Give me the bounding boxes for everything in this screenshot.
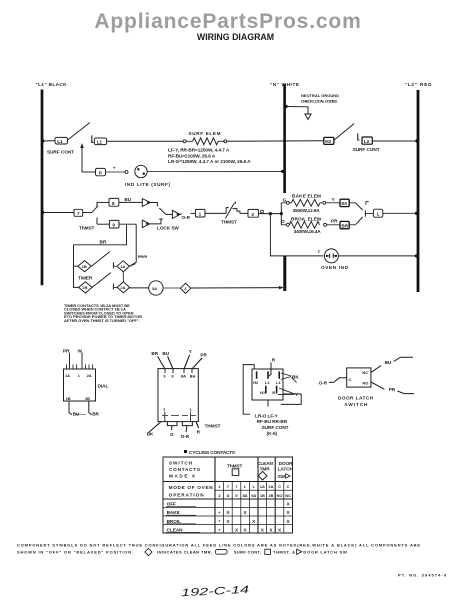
svg-text:CLEAN: CLEAN bbox=[167, 527, 184, 532]
svg-text:PR: PR bbox=[200, 353, 207, 358]
wire to switch 7 bbox=[44, 212, 74, 214]
svg-text:RF-BU RR-BR: RF-BU RR-BR bbox=[257, 419, 288, 424]
svg-text:SHOWN IN "OFF" OR "RELAXED" PO: SHOWN IN "OFF" OR "RELAXED" POSITION. bbox=[17, 549, 133, 554]
svg-text:O-R: O-R bbox=[181, 434, 190, 439]
svg-text:3400W,16.4A: 3400W,16.4A bbox=[294, 229, 322, 234]
svg-text:O-R: O-R bbox=[182, 215, 191, 220]
svg-text:NC: NC bbox=[285, 493, 291, 498]
part number handwriting bbox=[181, 584, 250, 600]
svg-text:AppliancePartsPros.com: AppliancePartsPros.com bbox=[94, 10, 361, 33]
connector triangle T2 lock sw bbox=[142, 219, 179, 231]
bake/broil lattice left rail bbox=[281, 197, 287, 224]
svg-text:THMST, &: THMST, & bbox=[273, 549, 295, 554]
svg-text:2A: 2A bbox=[268, 484, 273, 489]
svg-text:8A: 8A bbox=[243, 493, 248, 498]
svg-text:BK: BK bbox=[292, 374, 299, 379]
svg-text:ThMST: ThMST bbox=[227, 463, 243, 468]
wire arrow up from P bbox=[80, 143, 95, 172]
svg-text:L: L bbox=[377, 212, 380, 217]
svg-text:DOOR LATCH SW.: DOOR LATCH SW. bbox=[303, 549, 348, 554]
svg-text:TIMER: TIMER bbox=[78, 275, 93, 280]
wire to resistor bbox=[107, 140, 183, 142]
svg-text:L1: L1 bbox=[97, 140, 103, 145]
bus N WHITE bbox=[270, 82, 299, 193]
bus L1 BLACK bbox=[36, 82, 68, 285]
svg-text:TMR: TMR bbox=[260, 467, 271, 472]
svg-text:1B: 1B bbox=[82, 264, 87, 269]
node T bbox=[269, 212, 272, 215]
selector switch 7-8/9 bbox=[79, 202, 109, 230]
svg-text:8A: 8A bbox=[181, 374, 186, 379]
svg-text:LATCH: LATCH bbox=[278, 467, 294, 472]
svg-text:IND LITE (SURF): IND LITE (SURF) bbox=[125, 182, 170, 187]
ground symbol bbox=[284, 93, 339, 119]
svg-text:CHECK LOCAL CODES: CHECK LOCAL CODES bbox=[301, 99, 337, 104]
terminal 2 bbox=[248, 209, 280, 217]
selector blades to L bbox=[349, 202, 373, 225]
svg-text:LF-Y, RR-BR=1250W, 4.4.7 A: LF-Y, RR-BR=1250W, 4.4.7 A bbox=[168, 148, 230, 153]
svg-text:SURF CONT: SURF CONT bbox=[47, 150, 74, 155]
svg-text:LOCK SW: LOCK SW bbox=[157, 226, 179, 231]
svg-text:O: O bbox=[281, 219, 285, 224]
svg-text:BROIL ELEM: BROIL ELEM bbox=[291, 216, 321, 221]
svg-text:*: * bbox=[218, 519, 220, 524]
svg-text:CLEAN: CLEAN bbox=[257, 461, 274, 466]
svg-text:BK: BK bbox=[147, 431, 154, 436]
terminal 1 bbox=[195, 209, 205, 217]
node: L1 surf cont junction bbox=[41, 139, 44, 142]
DIAL component bbox=[63, 348, 109, 416]
cycling contacts note bbox=[184, 450, 235, 455]
svg-text:2A: 2A bbox=[120, 285, 125, 290]
svg-text:PR: PR bbox=[63, 348, 70, 353]
svg-text:2B: 2B bbox=[85, 396, 90, 401]
bus L2 RED bbox=[405, 82, 433, 292]
svg-text:BU: BU bbox=[124, 197, 131, 202]
connector triangle T1 bbox=[142, 199, 157, 207]
node lattice left bbox=[280, 212, 283, 215]
wire 2A to timer motor bbox=[130, 287, 149, 289]
svg-text:COMPONENT SYMBOLS DO NOT REFLE: COMPONENT SYMBOLS DO NOT REFLECT TRUE CO… bbox=[17, 543, 420, 548]
svg-text:SURF CONT: SURF CONT bbox=[262, 425, 289, 430]
svg-text:NC: NC bbox=[362, 370, 368, 375]
resistor BROIL ELEM bbox=[281, 216, 340, 234]
svg-text:BA: BA bbox=[190, 374, 196, 379]
svg-text:O-R: O-R bbox=[319, 380, 328, 385]
svg-text:LR-O LF-Y: LR-O LF-Y bbox=[255, 413, 279, 418]
svg-text:DIAL: DIAL bbox=[98, 383, 109, 388]
svg-text:G: G bbox=[283, 197, 287, 202]
door latch switch bbox=[319, 357, 415, 407]
svg-text:2: 2 bbox=[251, 212, 254, 217]
svg-text:CYCLING CONTACTS: CYCLING CONTACTS bbox=[189, 450, 235, 455]
svg-text:BU: BU bbox=[385, 360, 392, 365]
svg-text:8A: 8A bbox=[341, 201, 348, 206]
svg-text:1B: 1B bbox=[260, 493, 265, 498]
lock/thmst blade bbox=[159, 208, 166, 215]
svg-text:R: R bbox=[272, 390, 275, 395]
terminal BR bbox=[340, 221, 349, 228]
terminal 8 bbox=[109, 197, 142, 206]
svg-text:L2: L2 bbox=[364, 139, 370, 144]
footer notes bbox=[17, 543, 447, 578]
svg-text:8: 8 bbox=[112, 201, 115, 206]
timer motor 3A bbox=[149, 281, 163, 295]
terminal 7 bbox=[74, 209, 83, 216]
svg-text:BROIL: BROIL bbox=[167, 519, 182, 524]
svg-text:2A: 2A bbox=[87, 373, 92, 378]
svg-text:1A: 1A bbox=[120, 264, 125, 269]
svg-text:MODE OF OVEN: MODE OF OVEN bbox=[169, 485, 214, 490]
svg-text:ThMST: ThMST bbox=[79, 225, 95, 230]
svg-text:3500W,12.9A: 3500W,12.9A bbox=[293, 208, 321, 213]
thermostat switch THMST bbox=[205, 201, 248, 225]
timer contact 3 bbox=[163, 283, 283, 293]
svg-text:OPERATION: OPERATION bbox=[169, 492, 205, 497]
svg-text:PR: PR bbox=[389, 387, 396, 392]
svg-text:1B: 1B bbox=[66, 396, 71, 401]
svg-text:*: * bbox=[218, 511, 220, 516]
timer contact 2B bbox=[79, 273, 111, 293]
PR/R wire to timer 1A bbox=[130, 224, 148, 266]
svg-text:RF-BU=2100W, 26.6 A: RF-BU=2100W, 26.6 A bbox=[168, 153, 216, 158]
terminal 9 bbox=[109, 220, 136, 228]
svg-text:BAKE: BAKE bbox=[167, 510, 180, 515]
svg-text:H2: H2 bbox=[253, 380, 259, 385]
svg-text:OVEN IND: OVEN IND bbox=[321, 265, 349, 270]
svg-text:2B: 2B bbox=[268, 493, 273, 498]
svg-text:P: P bbox=[99, 171, 102, 176]
svg-text:C: C bbox=[287, 484, 290, 489]
svg-text:PR: PR bbox=[331, 218, 338, 223]
svg-text:LR-G=1250W, 4.4.7 A or 2100W,: LR-G=1250W, 4.4.7 A or 2100W, 26.6 A bbox=[168, 159, 251, 164]
svg-text:1A: 1A bbox=[65, 373, 70, 378]
ind lite (surf) bbox=[106, 165, 285, 187]
svg-text:C: C bbox=[348, 377, 351, 382]
svg-text:L1: L1 bbox=[57, 139, 63, 144]
svg-text:DOOR LATCH: DOOR LATCH bbox=[338, 396, 374, 401]
elem ratings text bbox=[168, 148, 251, 165]
terminal 8A bbox=[340, 199, 349, 206]
svg-text:INDICATES CLEAN TMR,: INDICATES CLEAN TMR, bbox=[157, 549, 212, 554]
svg-text:H1: H1 bbox=[260, 390, 266, 395]
svg-text:SW: SW bbox=[278, 474, 286, 479]
svg-text:H2: H2 bbox=[325, 139, 331, 144]
svg-text:OFF: OFF bbox=[167, 502, 176, 507]
wire resistor to H2 bbox=[227, 140, 324, 143]
svg-text:C: C bbox=[278, 484, 281, 489]
terminal L2 / surf cont right bbox=[353, 134, 419, 153]
svg-text:BU: BU bbox=[162, 351, 169, 356]
svg-text:+: + bbox=[113, 165, 116, 170]
svg-text:AFTER OVEN THMST IS TURNED "OF: AFTER OVEN THMST IS TURNED "OFF". bbox=[64, 318, 140, 323]
svg-text:BR: BR bbox=[341, 223, 348, 228]
THMST component bbox=[147, 349, 221, 439]
svg-text:SURF ELEM: SURF ELEM bbox=[189, 131, 221, 136]
svg-text:WIRING DIAGRAM: WIRING DIAGRAM bbox=[197, 32, 274, 42]
terminal H2 bbox=[324, 124, 354, 145]
svg-text:CONTACTS: CONTACTS bbox=[169, 467, 200, 472]
svg-text:SURF CONT,: SURF CONT, bbox=[234, 549, 261, 554]
terminal P bbox=[96, 168, 106, 175]
svg-text:"L1" BLACK: "L1" BLACK bbox=[36, 82, 68, 87]
svg-text:NEUTRAL GROUND: NEUTRAL GROUND bbox=[301, 93, 339, 98]
resistor BAKE ELEM bbox=[281, 193, 340, 212]
K-5 surf cont block bbox=[243, 358, 301, 436]
svg-text:SWITCH: SWITCH bbox=[344, 402, 368, 407]
BR wire to timer bbox=[74, 224, 127, 287]
node on L1 bus bbox=[41, 211, 44, 214]
svg-text:THMST: THMST bbox=[205, 423, 221, 428]
timer contact 1B bbox=[78, 252, 110, 281]
svg-text:BAKE ELEM: BAKE ELEM bbox=[292, 193, 321, 198]
svg-text:DOOR: DOOR bbox=[279, 461, 294, 466]
svg-text:SWITCH: SWITCH bbox=[169, 461, 193, 466]
svg-text:"L2" RED: "L2" RED bbox=[405, 82, 433, 87]
switch contacts table bbox=[163, 457, 294, 533]
svg-text:PR/R: PR/R bbox=[138, 254, 148, 259]
svg-text:1A: 1A bbox=[260, 484, 265, 489]
terminal L1 box 2 bbox=[92, 135, 107, 144]
svg-text:G: G bbox=[170, 432, 174, 437]
svg-text:PT. NO. 394574-9: PT. NO. 394574-9 bbox=[398, 572, 447, 577]
svg-text:7: 7 bbox=[77, 211, 80, 216]
timer contact 2A bbox=[113, 272, 129, 293]
terminal L bbox=[373, 209, 418, 217]
surf cont switch (left) bbox=[44, 123, 90, 155]
svg-text:NO: NO bbox=[362, 380, 368, 385]
svg-text:(K-5): (K-5) bbox=[267, 431, 278, 436]
svg-text:NO: NO bbox=[277, 493, 283, 498]
svg-text:2B: 2B bbox=[82, 285, 87, 290]
svg-text:BU: BU bbox=[73, 411, 80, 416]
svg-text:9A: 9A bbox=[251, 493, 256, 498]
oven ind branch bbox=[270, 214, 418, 271]
svg-text:1: 1 bbox=[199, 212, 202, 217]
svg-text:SURF CONT: SURF CONT bbox=[353, 147, 380, 152]
timer note text bbox=[64, 303, 142, 323]
svg-text:L1: L1 bbox=[265, 380, 270, 385]
timer contact 1A bbox=[113, 261, 135, 272]
svg-text:BR: BR bbox=[92, 411, 99, 416]
svg-text:9: 9 bbox=[112, 223, 115, 228]
connector triangle T3 bbox=[166, 210, 195, 220]
svg-text:*: * bbox=[218, 528, 220, 533]
svg-text:THMST: THMST bbox=[221, 220, 237, 225]
svg-text:3A: 3A bbox=[152, 286, 157, 291]
bus N lower segment bbox=[283, 256, 286, 291]
svg-text:BR: BR bbox=[100, 239, 107, 244]
svg-text:BR: BR bbox=[151, 351, 158, 356]
resistor SURF ELEM bbox=[183, 131, 227, 145]
